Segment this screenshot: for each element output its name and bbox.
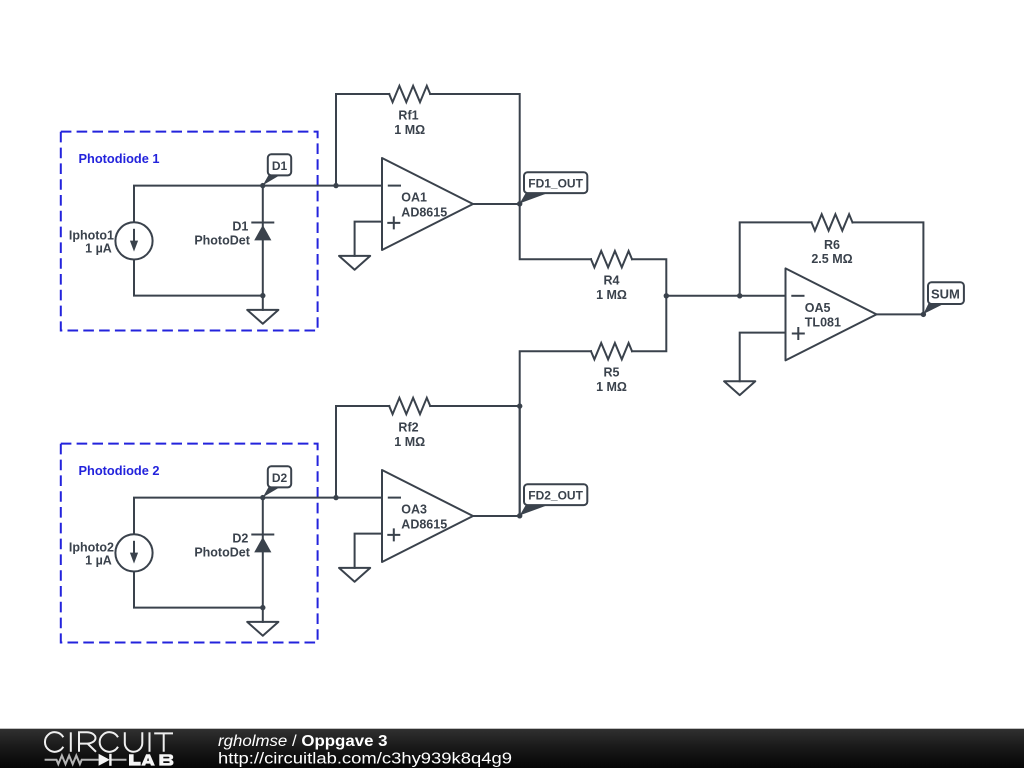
ground (photodiode 1): [247, 310, 278, 324]
svg-text:1 µA: 1 µA: [85, 242, 112, 256]
net flag FD1_OUT: [520, 192, 550, 203]
net flag D1: [263, 175, 281, 185]
node D1 junction: [260, 183, 265, 188]
resistor R5 1 MΩ: [591, 343, 632, 359]
node SUM junction: [921, 312, 926, 317]
op-amp OA3 AD8615: [382, 470, 473, 562]
wire feedback loop R6: [740, 222, 924, 314]
CircuitLab logo "CIRCUIT": [45, 732, 173, 752]
current source Iphoto1: [115, 222, 152, 259]
svg-text:FD1_OUT: FD1_OUT: [528, 177, 583, 191]
net flag FD2_OUT: [520, 504, 550, 515]
resistor R4 1 MΩ: [591, 251, 632, 267]
wire diode branch: [262, 186, 264, 296]
wire bottom row: [134, 259, 263, 295]
svg-text:1 MΩ: 1 MΩ: [596, 288, 627, 302]
wire OA1 output: [473, 203, 520, 205]
node Rf2 feedback junction: [333, 495, 338, 500]
svg-text:D1: D1: [272, 159, 288, 173]
photodiode D1: [252, 222, 273, 224]
node Rf1 feedback junction: [333, 183, 338, 188]
wire OA3 output: [473, 515, 520, 517]
wire feedback loop Rf2: [336, 406, 520, 516]
node ground junction: [260, 605, 265, 610]
ground (photodiode 2): [247, 622, 278, 636]
svg-text:OA5: OA5: [805, 301, 831, 315]
svg-text:FD2_OUT: FD2_OUT: [528, 489, 583, 503]
node FD1_OUT junction: [517, 201, 522, 206]
svg-text:TL081: TL081: [805, 316, 841, 330]
svg-text:D2: D2: [232, 531, 248, 545]
op-amp OA1 AD8615: [382, 158, 473, 250]
wire top node row: [134, 186, 382, 223]
wire FD2_OUT to R5: [520, 296, 667, 516]
ground (OA3 non-inverting): [339, 568, 370, 582]
op-amp OA5 TL081: [786, 268, 877, 360]
svg-text:1 MΩ: 1 MΩ: [394, 123, 425, 137]
resistor R6 2.5 MΩ: [812, 214, 853, 230]
svg-text:R5: R5: [604, 366, 620, 380]
wire bottom row: [134, 571, 263, 607]
wire non-inverting input to ground: [355, 534, 382, 568]
resistor Rf1 1 MΩ: [389, 86, 430, 102]
wire ground stub: [262, 608, 264, 622]
svg-text:rgholmse / Oppgave 3: rgholmse / Oppgave 3: [218, 733, 388, 750]
svg-text:OA3: OA3: [401, 503, 427, 517]
wire summing node to OA5 inverting input: [666, 295, 785, 297]
wire feedback loop Rf1: [336, 94, 520, 204]
svg-text:Rf2: Rf2: [398, 421, 418, 435]
svg-text:1 µA: 1 µA: [85, 554, 112, 568]
photodiode enclosure box Photodiode 2: [61, 444, 318, 643]
svg-text:OA1: OA1: [401, 191, 427, 205]
net flag D2: [263, 487, 281, 497]
logo LAB: [129, 754, 174, 765]
logo resistor-diode squiggle: [45, 756, 127, 765]
svg-text:D2: D2: [272, 471, 288, 485]
photodiode enclosure box Photodiode 1: [61, 132, 318, 331]
svg-text:R4: R4: [604, 274, 620, 288]
wire diode branch: [262, 498, 264, 608]
wire non-inverting input to ground: [355, 222, 382, 256]
svg-text:R6: R6: [824, 238, 840, 252]
svg-text:1 MΩ: 1 MΩ: [596, 380, 627, 394]
ground (OA5 non-inverting): [724, 381, 755, 395]
svg-text:D1: D1: [232, 219, 248, 233]
node summing junction: [664, 293, 669, 298]
current source Iphoto2: [115, 534, 152, 571]
wire OA5 non-inverting input to ground: [740, 333, 786, 382]
svg-text:AD8615: AD8615: [401, 205, 447, 219]
wire FD1_OUT to R4: [520, 204, 667, 296]
svg-text:Photodiode 1: Photodiode 1: [79, 151, 160, 166]
svg-text:1 MΩ: 1 MΩ: [394, 435, 425, 449]
node R6 feedback junction: [737, 293, 742, 298]
wire OA5 output: [877, 313, 924, 315]
svg-text:2.5 MΩ: 2.5 MΩ: [811, 252, 852, 266]
resistor Rf2 1 MΩ: [389, 398, 430, 414]
node FD2_OUT junction: [517, 513, 522, 518]
node ground junction: [260, 293, 265, 298]
svg-text:PhotoDet: PhotoDet: [194, 233, 250, 247]
svg-text:AD8615: AD8615: [401, 517, 447, 531]
svg-text:Iphoto1: Iphoto1: [69, 228, 114, 242]
wire top node row: [134, 498, 382, 535]
svg-text:http://circuitlab.com/c3hy939k: http://circuitlab.com/c3hy939k8q4g9: [218, 751, 512, 768]
svg-text:SUM: SUM: [931, 287, 960, 302]
svg-text:Photodiode 2: Photodiode 2: [79, 463, 160, 478]
ground (OA1 non-inverting): [339, 256, 370, 270]
node Rf2 tie junction: [517, 403, 522, 408]
net flag SUM: [923, 303, 945, 314]
node D2 junction: [260, 495, 265, 500]
svg-text:PhotoDet: PhotoDet: [194, 545, 250, 559]
svg-text:Iphoto2: Iphoto2: [69, 540, 114, 554]
svg-text:Rf1: Rf1: [398, 109, 418, 123]
wire ground stub: [262, 296, 264, 310]
photodiode D2: [252, 534, 273, 536]
